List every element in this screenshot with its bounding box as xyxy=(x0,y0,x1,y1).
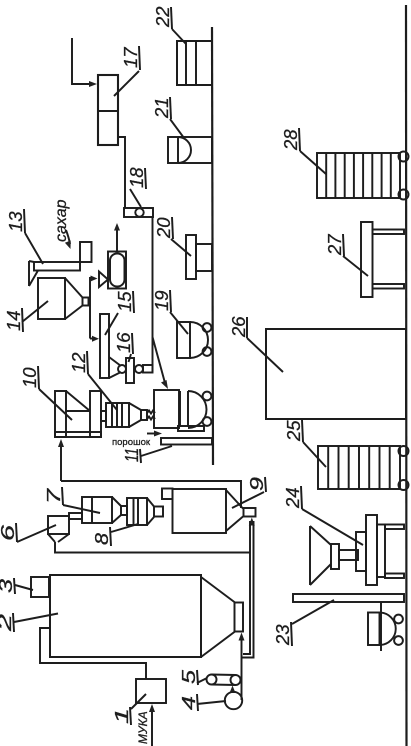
unit 4 blower xyxy=(225,692,242,709)
svg-text:9: 9 xyxy=(246,477,267,491)
unit 24 funnel mixer stand xyxy=(309,526,311,585)
unit 20 table xyxy=(186,235,196,279)
unit 1 feeder box xyxy=(136,679,166,703)
arrow 4 to 5 xyxy=(232,690,234,693)
svg-text:8: 8 xyxy=(91,532,112,545)
unit 3 filter box xyxy=(31,577,49,597)
wire 18 down xyxy=(152,217,154,372)
valve into mixer xyxy=(99,272,108,288)
bowl trolley on monorail xyxy=(368,613,380,646)
ground line top row xyxy=(212,27,213,465)
svg-text:7: 7 xyxy=(43,488,64,504)
svg-text:18: 18 xyxy=(126,167,147,188)
riser pipe arrow into 9 xyxy=(249,518,255,526)
svg-text:порошок: порошок xyxy=(112,437,151,448)
svg-text:25: 25 xyxy=(283,420,304,442)
exhaust arrow from mixer xyxy=(116,228,118,251)
hose 12 to 11 xyxy=(147,411,155,414)
unit mixer oval xyxy=(108,252,126,289)
svg-text:4: 4 xyxy=(178,696,199,710)
unit 12 grinder xyxy=(106,403,129,427)
flow wire 9 to 10 xyxy=(61,481,241,508)
wire into unit 17 xyxy=(72,38,93,84)
flour arrow xyxy=(151,709,153,746)
svg-text:15: 15 xyxy=(114,291,135,312)
svg-text:10: 10 xyxy=(19,367,40,388)
wire 1 to 2 xyxy=(40,628,146,679)
unit 2 silo xyxy=(50,575,201,657)
unit 21 kettle xyxy=(168,137,212,163)
svg-text:22: 22 xyxy=(152,6,173,28)
svg-text:МУКА: МУКА xyxy=(136,711,150,744)
unit 8 xyxy=(127,498,147,525)
svg-text:12: 12 xyxy=(68,352,89,373)
wire 6 down right to riser xyxy=(55,542,250,553)
svg-text:1: 1 xyxy=(111,708,132,724)
unit 16 feeder xyxy=(118,365,126,373)
svg-text:14: 14 xyxy=(3,310,24,331)
wire arrow into unit 11 xyxy=(153,337,166,383)
svg-text:17: 17 xyxy=(120,47,141,68)
svg-text:24: 24 xyxy=(282,487,303,509)
svg-text:21: 21 xyxy=(151,97,172,119)
duct 6 to 7 xyxy=(69,513,82,519)
ground line bottom row xyxy=(405,5,408,746)
unit 13 sugar chute xyxy=(80,242,92,262)
svg-text:13: 13 xyxy=(5,211,26,232)
unit 23 monorail beam xyxy=(293,594,404,602)
unit 6 blower xyxy=(48,516,69,534)
unit 10 sifter xyxy=(55,391,66,437)
unit 28 trolley rack xyxy=(317,153,400,198)
unit 26 chamber xyxy=(266,329,406,419)
riser pipe double xyxy=(243,521,250,654)
wire arrow into 10 from below xyxy=(60,444,62,481)
wire 17 to 18 xyxy=(118,137,125,208)
unit 5 belt feeder xyxy=(207,675,217,685)
unit 15 sieve slab xyxy=(100,314,109,378)
svg-text:19: 19 xyxy=(151,290,172,311)
svg-text:16: 16 xyxy=(113,332,134,353)
arrow into silo spout xyxy=(239,633,245,641)
unit 22 xyxy=(177,41,212,85)
svg-text:23: 23 xyxy=(272,624,293,646)
sugar arrow xyxy=(66,230,70,244)
svg-text:20: 20 xyxy=(153,217,174,239)
wire from 14 to valve and sieve 15 xyxy=(89,277,91,339)
unit 19 bowl on wheels xyxy=(177,322,190,358)
svg-text:26: 26 xyxy=(228,316,249,338)
unit 7 cyclone feeder xyxy=(82,497,112,523)
unit 9 cyclone xyxy=(162,489,173,500)
unit 14 hopper xyxy=(38,278,65,319)
unit 11 bowl machine xyxy=(154,390,179,428)
svg-text:11: 11 xyxy=(121,448,142,462)
unit 27 table xyxy=(361,222,373,297)
unit 25 trolley rack xyxy=(318,446,400,489)
svg-text:27: 27 xyxy=(324,234,345,256)
unit 18 pump xyxy=(124,208,153,217)
funnel 15 to 16 xyxy=(109,357,121,366)
svg-text:5: 5 xyxy=(178,669,199,684)
unit 17 xyxy=(98,75,118,145)
svg-text:28: 28 xyxy=(280,129,301,151)
